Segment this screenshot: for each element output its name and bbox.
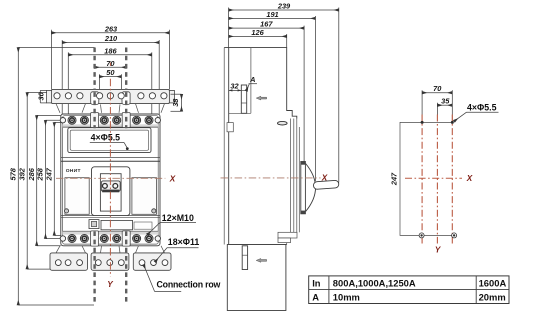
svg-text:38: 38 <box>171 98 180 107</box>
svg-text:186: 186 <box>104 46 117 55</box>
drill centerline right <box>451 115 453 244</box>
svg-text:286: 286 <box>27 167 36 181</box>
dim 35 drill <box>437 97 452 115</box>
svg-text:Connection row: Connection row <box>157 279 221 289</box>
dim 186 <box>68 46 152 127</box>
svg-text:In: In <box>312 278 321 289</box>
dim 70 drill <box>422 84 452 122</box>
dim 50 <box>99 68 121 96</box>
svg-text:20mm: 20mm <box>479 291 506 302</box>
centerline X front <box>56 177 165 179</box>
dim 70 top <box>95 59 127 68</box>
svg-text:X: X <box>466 174 473 183</box>
bottom pad center <box>91 253 129 270</box>
bottom pad right <box>133 253 171 270</box>
svg-text:239: 239 <box>277 2 291 11</box>
bottom pad necks <box>56 246 165 253</box>
drill hole top-right <box>451 121 454 124</box>
dim 191 <box>229 10 316 181</box>
side top stud <box>241 85 246 113</box>
svg-text:18×Φ11: 18×Φ11 <box>168 237 200 247</box>
dim 286 <box>27 115 61 245</box>
dim 32 <box>229 82 242 92</box>
section label A <box>246 75 257 91</box>
lower cover steps <box>278 232 297 244</box>
cover knob <box>278 121 288 125</box>
svg-text:392: 392 <box>17 167 26 180</box>
test button block <box>89 220 99 229</box>
callout connection row <box>144 265 221 292</box>
template outline <box>400 122 455 235</box>
bottom terminal band <box>63 231 159 234</box>
dim 239 <box>229 2 339 183</box>
handle console <box>92 167 130 216</box>
dim 247 left <box>45 122 67 235</box>
svg-text:1600A: 1600A <box>479 278 507 289</box>
dim 578 <box>9 48 95 306</box>
bottom pad left <box>50 253 88 270</box>
dim 263 <box>51 24 169 89</box>
body divider under cover <box>61 156 160 158</box>
side step under stud <box>229 112 251 114</box>
mounting arrow top <box>256 96 266 100</box>
front cover layers <box>291 119 300 233</box>
svg-text:32: 32 <box>230 82 239 91</box>
lower chamber <box>227 245 286 311</box>
top pad holes <box>54 93 167 99</box>
svg-text:4×Φ5.5: 4×Φ5.5 <box>91 133 121 143</box>
svg-text:10mm: 10mm <box>333 291 360 302</box>
side body outline <box>224 48 297 245</box>
callout 18x11 <box>155 237 199 262</box>
svg-text:12×M10: 12×M10 <box>162 213 194 223</box>
handle travel arc <box>306 164 316 212</box>
svg-text:X: X <box>169 174 176 183</box>
svg-text:4×Φ5.5: 4×Φ5.5 <box>467 102 497 112</box>
body outer case <box>61 114 160 246</box>
dim 258 <box>36 120 68 238</box>
svg-text:247: 247 <box>45 167 54 181</box>
svg-text:258: 258 <box>36 167 45 181</box>
svg-text:578: 578 <box>9 167 18 180</box>
dim 38 <box>171 94 182 111</box>
dim 210 <box>62 34 159 114</box>
panel corner screw left <box>64 209 68 213</box>
top terminal screw band <box>63 124 159 127</box>
drill hole bottom-left <box>419 233 424 238</box>
pad necks <box>56 104 165 113</box>
bottom terminal clamps <box>91 231 99 246</box>
svg-text:35: 35 <box>441 97 450 106</box>
svg-text:126: 126 <box>251 28 264 37</box>
dim 126 <box>229 28 287 48</box>
svg-text:800A,1000A,1250A: 800A,1000A,1250A <box>333 278 416 289</box>
svg-text:210: 210 <box>104 34 118 43</box>
dim 167 <box>229 20 305 162</box>
left accessory panel <box>65 178 89 215</box>
top flange plate <box>47 89 175 104</box>
escutcheon side bar <box>301 162 306 214</box>
svg-text:A: A <box>312 291 319 302</box>
side body bottom edge <box>229 244 287 246</box>
callout 12xM10 <box>147 213 196 235</box>
svg-text:30: 30 <box>37 91 46 100</box>
svg-text:ОНИТ: ОНИТ <box>66 168 81 174</box>
drill centerline left <box>421 115 423 244</box>
bottom pad holes <box>55 260 168 266</box>
drill centerline X <box>405 177 462 179</box>
side small ledge block <box>227 123 233 132</box>
dim 30 <box>37 90 47 103</box>
toggle lever <box>313 180 339 189</box>
TABLE <box>309 276 509 304</box>
panel corner screw right <box>152 209 156 213</box>
drill hole top-left <box>421 121 424 124</box>
centerline X side <box>221 177 321 179</box>
side top chamber divider <box>250 48 252 114</box>
centerline Y front <box>109 63 111 67</box>
callout 4x5.5 drill <box>454 102 499 121</box>
drill centerline mid <box>436 115 438 244</box>
gauge dashed line left <box>93 48 95 306</box>
top terminal clamps <box>91 113 99 128</box>
lower band dividers <box>61 215 160 217</box>
svg-text:263: 263 <box>104 24 118 33</box>
right accessory panel <box>132 178 157 215</box>
side bottom stud <box>242 246 247 270</box>
label plate block <box>101 220 133 229</box>
svg-text:247: 247 <box>390 172 399 186</box>
top end terminals <box>60 118 65 123</box>
rear plate line <box>223 48 225 245</box>
inner top cover <box>68 128 151 153</box>
dim 392 <box>17 93 51 270</box>
svg-text:A: A <box>249 75 255 84</box>
top terminal screws <box>68 116 153 124</box>
bottom end terminals <box>60 236 65 241</box>
drill hole bottom-right <box>452 233 457 238</box>
callout 4x5.5 front <box>90 133 129 150</box>
gauge dashed line right <box>125 48 127 306</box>
bottom terminal screws <box>68 235 153 243</box>
svg-text:191: 191 <box>266 10 278 19</box>
svg-text:70: 70 <box>433 84 442 93</box>
svg-text:50: 50 <box>106 68 115 77</box>
mounting arrow bottom <box>256 259 266 263</box>
svg-text:X: X <box>321 173 328 182</box>
